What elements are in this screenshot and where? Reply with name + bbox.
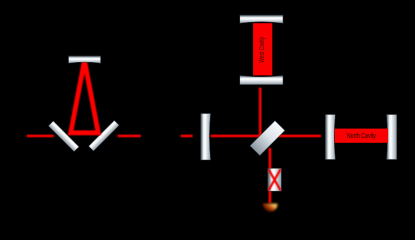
west cavity input mirror (bottom bar, concave upper face): [240, 75, 283, 84]
wire: west cavity vertical beam down to beam splitter: [259, 88, 262, 139]
wire: mode cleaner resonant triangle beam: [71, 61, 99, 133]
north cavity end mirror (right vertical bar, concave left face): [386, 115, 396, 160]
mode cleaner mirror MC3 (top, flat bar, concave lower face): [69, 56, 101, 63]
wire: beam dash 2 (between mode cleaner and steering mirror): [118, 135, 141, 138]
beam splitter (45deg plate): [250, 121, 285, 156]
wire: input beam dash 1: [27, 135, 54, 138]
photodetector (half dome): [263, 204, 278, 212]
modulator / isolator body: [268, 168, 282, 191]
west cavity end mirror (top bar, concave lower face): [240, 15, 283, 23]
modulator red X mark: [269, 169, 281, 190]
west cavity intracavity beam (red block): [253, 23, 272, 75]
wire: output beam from beam splitter down to modulator: [269, 148, 272, 170]
wire: beam dash 3 (before steering mirror): [181, 135, 193, 138]
svg-text:North Cavity: North Cavity: [347, 132, 377, 140]
wire: main horizontal beam from steering mirror through beam splitter to north cavity: [211, 135, 321, 138]
steering mirror (vertical bar, concave right face): [201, 114, 211, 161]
north cavity input mirror (left vertical bar, concave right face): [325, 115, 335, 160]
north cavity intracavity beam (red block): [335, 129, 388, 143]
mode cleaner mirror MC1 (bottom-left, 45deg): [48, 121, 79, 152]
mode cleaner mirror MC2 (bottom-right, 45deg): [89, 120, 120, 151]
wire: output beam from modulator down to photodetector: [269, 190, 272, 203]
svg-text:West Cavity: West Cavity: [259, 36, 266, 62]
